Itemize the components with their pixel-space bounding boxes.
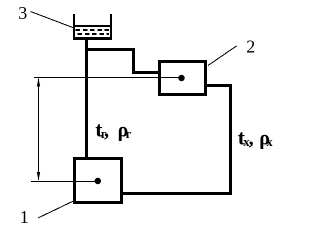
- svg-text:г: г: [126, 127, 132, 141]
- svg-text:,: ,: [249, 128, 254, 150]
- svg-text:,: ,: [104, 120, 109, 142]
- svg-text:2: 2: [246, 36, 255, 56]
- svg-text:1: 1: [20, 207, 29, 227]
- svg-text:х: х: [266, 135, 273, 149]
- svg-text:3: 3: [18, 3, 27, 23]
